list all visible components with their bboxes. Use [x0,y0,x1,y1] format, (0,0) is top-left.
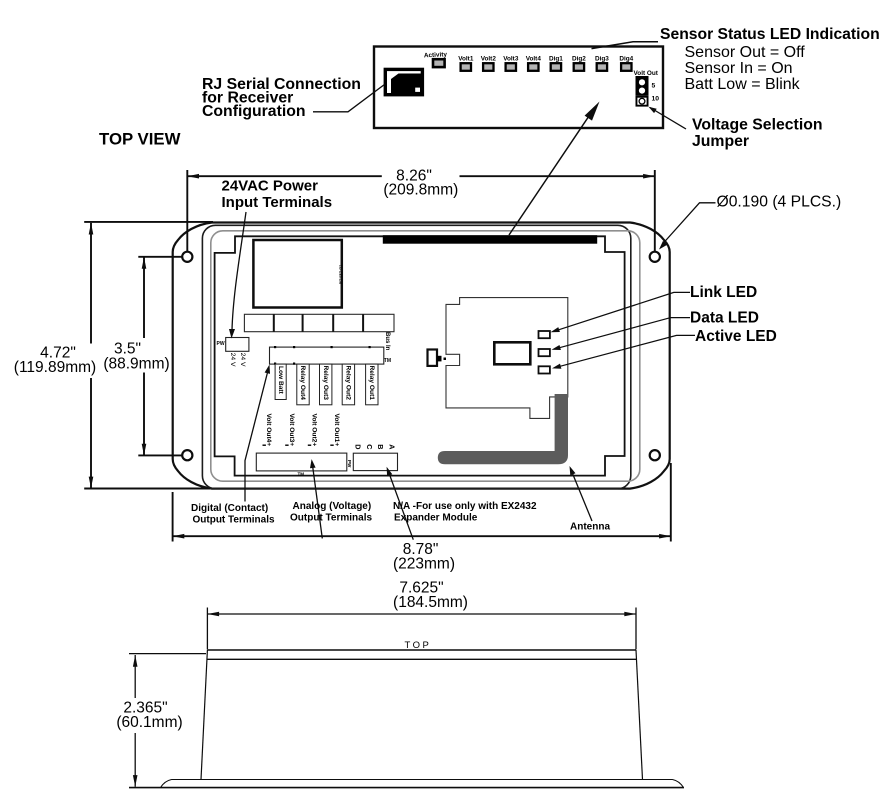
svg-text:Bus In: Bus In [384,332,390,351]
inner lip dark [202,225,630,488]
svg-text:TOP: TOP [405,640,432,651]
big arrow from main view to top panel [509,102,600,236]
leader to Voltage Selection Jumper [649,107,687,129]
svg-text:Antenna: Antenna [570,522,610,533]
svg-text:(209.8mm): (209.8mm) [383,181,458,198]
svg-text:Link LED: Link LED [690,284,757,301]
pin header Low Batt [275,364,286,399]
dimension 7.625 inch [207,580,636,650]
Data LED [539,349,550,356]
svg-text:Volt4: Volt4 [526,55,542,62]
svg-text:24 V: 24 V [239,353,246,367]
svg-text:(184.5mm): (184.5mm) [393,594,468,611]
label Voltage Selection Jumper [692,117,823,151]
svg-text:(88.9mm): (88.9mm) [103,356,169,373]
leader Active LED [552,335,695,368]
LED Dig1 [549,55,563,70]
svg-text:24VAC Power: 24VAC Power [222,178,319,195]
svg-text:E2432-01: E2432-01 [338,264,343,284]
dimension 8.26 inch [187,167,655,251]
label TOP VIEW [99,130,181,149]
svg-text:Expander Module: Expander Module [394,512,478,523]
RF chip [494,342,530,364]
svg-text:Volt Out4+: Volt Out4+ [265,414,272,447]
svg-text:Ø0.190 (4 PLCS.): Ø0.190 (4 PLCS.) [717,193,842,210]
svg-text:TOP VIEW: TOP VIEW [99,130,181,149]
mounting hole bottom-left [182,450,192,460]
svg-text:10: 10 [652,96,660,103]
svg-text:Relay Out4: Relay Out4 [299,366,306,401]
svg-text:Sensor Out = Off: Sensor Out = Off [685,44,806,61]
side view base flange [129,780,684,788]
svg-text:(60.1mm): (60.1mm) [116,714,182,731]
svg-text:B: B [376,444,385,449]
svg-text:Relay Out2: Relay Out2 [345,366,352,401]
svg-text:Batt Low = Blink: Batt Low = Blink [685,76,801,93]
dimension 4.72 inch [14,222,213,489]
svg-text:Data LED: Data LED [690,309,759,326]
silkscreen Volt Out1 [330,414,340,447]
svg-text:Relay Out3: Relay Out3 [322,366,329,401]
svg-text:Dig2: Dig2 [572,55,586,62]
svg-text:5: 5 [652,83,656,90]
svg-text:Dig3: Dig3 [595,55,609,62]
PCB outline [215,236,625,475]
label hole diameter [659,193,841,249]
svg-text:Output Terminals: Output Terminals [193,515,275,526]
leader Digital Output Terminals [245,365,270,502]
label Analog Output Terminals [290,501,372,524]
output terminal strip [270,346,384,365]
svg-text:Sensor In = On: Sensor In = On [685,60,793,77]
pin header Relay Out1 [366,364,378,405]
mounting hole bottom-right [650,450,660,460]
svg-text:PW: PW [347,460,352,468]
svg-text:TM: TM [298,472,305,477]
LED Volt4 [526,55,542,70]
svg-text:Sensor Status LED Indication: Sensor Status LED Indication [660,26,880,43]
Volt Out jumper block [634,70,660,107]
LED Dig3 [595,55,609,70]
RF module U1 outline [446,298,568,419]
enclosure outer shell [173,223,670,489]
Activity LED [424,51,448,67]
svg-text:Low Batt: Low Batt [277,366,284,395]
svg-text:A: A [387,444,396,449]
label Sensor Status LED Indication [660,26,880,93]
dimension 3.5 inch [103,257,183,456]
LED Volt3 [503,55,519,70]
svg-text:Relay Out1: Relay Out1 [368,366,375,401]
digital output terminal block [256,453,347,477]
silkscreen Volt Out2 [308,414,318,447]
dimension 2.365 inch [116,654,206,787]
24V power terminal [217,338,249,368]
dimension 8.78 inch [173,463,671,572]
svg-text:Voltage Selection: Voltage Selection [692,117,823,134]
leader Link LED [551,292,691,332]
svg-text:Volt1: Volt1 [458,55,474,62]
antenna [438,394,568,464]
label RJ Serial Connection [202,76,385,120]
svg-text:Volt Out3+: Volt Out3+ [288,414,295,447]
svg-text:Volt Out: Volt Out [634,70,659,77]
top edge view panel [374,47,663,129]
leader Data LED [552,318,691,350]
svg-text:Volt2: Volt2 [481,55,497,62]
svg-text:(119.89mm): (119.89mm) [14,359,96,376]
svg-text:D: D [353,444,362,449]
top connector black bar [383,235,597,244]
RJ serial jack J1 [385,69,422,94]
relay row K1-K5 [244,314,394,331]
svg-text:24 V: 24 V [229,353,236,367]
svg-text:(223mm): (223mm) [393,555,455,572]
svg-text:C: C [365,444,374,449]
LED Dig2 [572,55,586,70]
leader Antenna [570,466,593,521]
Active LED [539,366,550,373]
silkscreen Volt Out4 [263,414,273,447]
transformer T1 [253,240,343,308]
svg-text:Active LED: Active LED [695,328,777,345]
mounting hole top-right [650,252,660,262]
svg-text:N/A -For use only with EX2432: N/A -For use only with EX2432 [393,501,537,512]
svg-text:Volt3: Volt3 [503,55,519,62]
label 24VAC Power Input Terminals [222,178,333,339]
mounting hole top-left [182,252,192,262]
silkscreen Volt Out3 [285,414,295,447]
expander terminal block [347,453,397,470]
svg-text:TM: TM [384,358,391,364]
leader Expander Module [387,467,414,540]
label Expander Module [393,501,537,523]
svg-text:Dig4: Dig4 [619,55,633,62]
svg-text:Analog (Voltage): Analog (Voltage) [293,501,372,512]
Bus In label [384,332,391,364]
Link LED [539,331,550,338]
svg-text:Jumper: Jumper [692,133,749,150]
svg-text:PW: PW [217,341,225,347]
RF connector J2 [428,350,447,366]
side view enclosure body [201,640,643,780]
pin header Relay Out2 [342,364,354,405]
svg-text:Output Terminals: Output Terminals [290,513,372,524]
svg-text:Volt Out1+: Volt Out1+ [333,414,340,447]
LED Volt1 [458,55,474,70]
connector pins D C B A [353,444,396,449]
LED Dig4 [619,55,633,70]
label Digital Output Terminals [191,503,275,525]
pin header Relay Out3 [320,364,332,405]
LED Volt2 [481,55,497,70]
pin header Relay Out4 [297,364,309,405]
leader Analog Output Terminals [310,459,322,538]
svg-text:Dig1: Dig1 [549,55,563,62]
leader from Sensor Status text to panel [592,42,659,49]
svg-text:Input Terminals: Input Terminals [222,194,333,211]
inner lip gray [211,231,640,481]
svg-text:Digital (Contact): Digital (Contact) [191,503,268,514]
svg-text:Volt Out2+: Volt Out2+ [311,414,318,447]
svg-text:Configuration: Configuration [202,103,306,120]
